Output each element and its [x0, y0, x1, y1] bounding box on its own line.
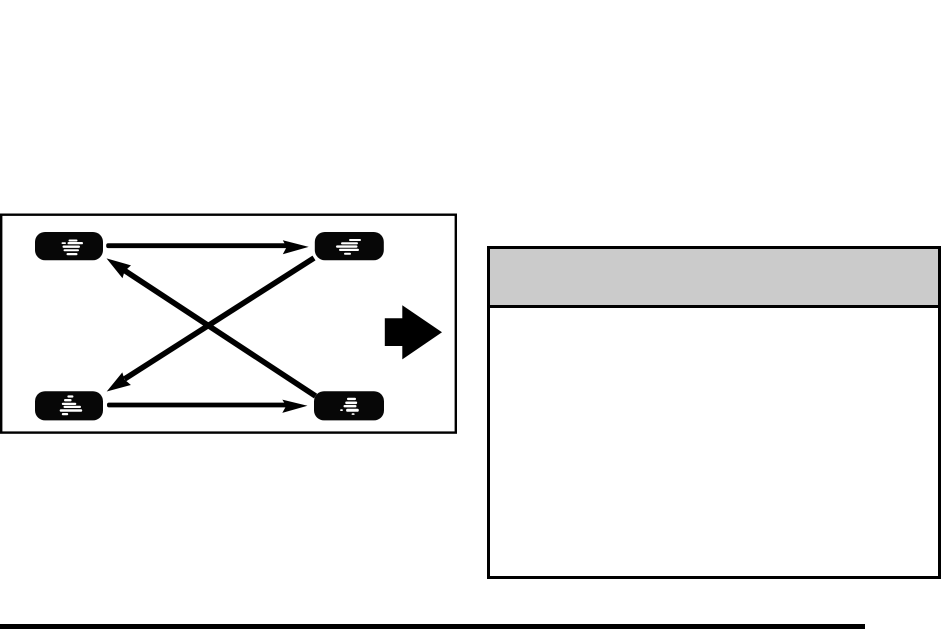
tire LF tread marks	[62, 240, 84, 256]
bottom page rule bar	[0, 624, 865, 629]
tire RR tread marks	[340, 398, 359, 415]
arrow RF to LR (diagonal, head down-left)	[107, 258, 314, 392]
big transition arrow	[385, 305, 442, 359]
tire RF tread marks	[336, 239, 361, 255]
tire LF (top-left)	[35, 232, 103, 260]
tire RF (top-right)	[315, 232, 384, 260]
diagram frame box	[1, 215, 456, 433]
tire RR (bottom-right)	[314, 391, 384, 420]
arrow LF to RF (top horizontal)	[106, 240, 309, 254]
tire LR tread marks	[60, 395, 82, 415]
arrow LR to RR (bottom horizontal)	[107, 400, 308, 413]
arrow RR to LF (diagonal, head up-left)	[107, 258, 316, 396]
table header band (gray)	[490, 249, 938, 308]
maintenance chart table	[487, 246, 941, 579]
tire LR (bottom-left)	[35, 391, 103, 420]
